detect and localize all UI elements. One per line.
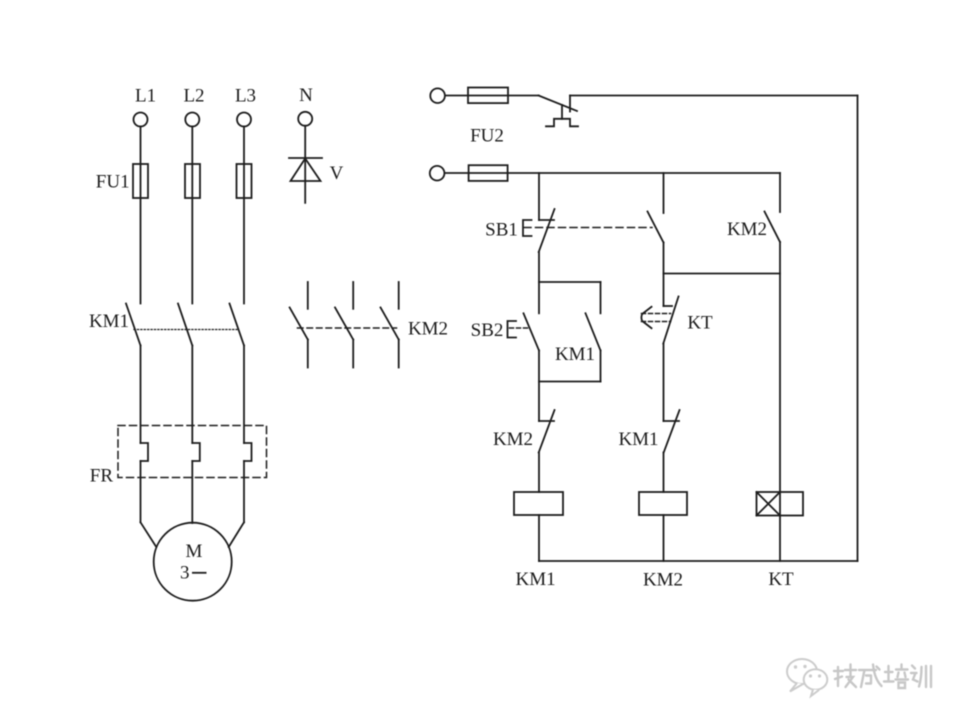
svg-text:KM1: KM1	[89, 311, 129, 332]
svg-text:FU1: FU1	[96, 172, 130, 193]
svg-text:3: 3	[180, 563, 190, 584]
svg-text:SB1: SB1	[485, 220, 518, 241]
svg-text:KM2: KM2	[408, 319, 448, 340]
svg-text:KT: KT	[768, 569, 794, 590]
svg-text:L1: L1	[135, 86, 156, 107]
svg-text:M: M	[186, 541, 203, 562]
svg-text:KM2: KM2	[727, 219, 767, 240]
svg-text:V: V	[330, 163, 344, 184]
svg-text:KM1: KM1	[516, 569, 556, 590]
svg-text:KM2: KM2	[493, 429, 533, 450]
svg-text:KM2: KM2	[643, 570, 683, 591]
svg-text:KT: KT	[687, 313, 713, 334]
svg-text:N: N	[299, 85, 313, 106]
svg-text:KM1: KM1	[618, 429, 658, 450]
svg-text:SB2: SB2	[471, 320, 504, 341]
svg-text:KM1: KM1	[555, 344, 595, 365]
svg-text:L2: L2	[183, 86, 204, 107]
svg-text:FR: FR	[90, 466, 114, 487]
svg-text:FU2: FU2	[470, 126, 504, 147]
svg-text:L3: L3	[235, 86, 256, 107]
